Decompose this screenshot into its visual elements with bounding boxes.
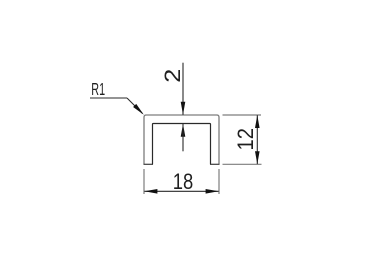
svg-text:R1: R1 <box>91 79 105 99</box>
dimension 18: left arrowhead <box>144 189 157 194</box>
svg-text:12: 12 <box>233 128 258 151</box>
dimension 2: upper arrowhead (points down to outer top face) <box>181 102 186 115</box>
U-profile left leg bottom cap <box>144 163 154 165</box>
dimension 2: upper leader line <box>182 63 184 115</box>
dimension 2: lower leader tail <box>182 124 184 152</box>
svg-text:2: 2 <box>160 69 185 83</box>
radius label R1: leader diagonal segment <box>127 98 143 114</box>
svg-text:18: 18 <box>173 169 194 194</box>
dimension 18: dimension line <box>144 190 218 192</box>
dimension 2: lower arrowhead (points up to inner top face) <box>181 124 186 137</box>
dimension 18: right arrowhead <box>206 189 219 194</box>
U-profile outer contour <box>144 115 219 164</box>
radius label R1: leader horizontal segment <box>90 97 127 99</box>
radius label R1: arrowhead at corner <box>133 104 144 115</box>
U-profile inner contour <box>153 124 211 165</box>
dimension 18: right extension line <box>218 169 220 194</box>
dimension 12: top arrowhead <box>255 115 260 128</box>
U-profile right leg bottom cap <box>210 163 220 165</box>
dimension 12: top extension line <box>223 114 262 116</box>
dimension 12: dimension line <box>256 115 258 164</box>
dimension 18: left extension line <box>143 169 145 194</box>
dimension 12: bottom arrowhead <box>255 151 260 164</box>
dimension 12: bottom extension line <box>223 163 262 165</box>
